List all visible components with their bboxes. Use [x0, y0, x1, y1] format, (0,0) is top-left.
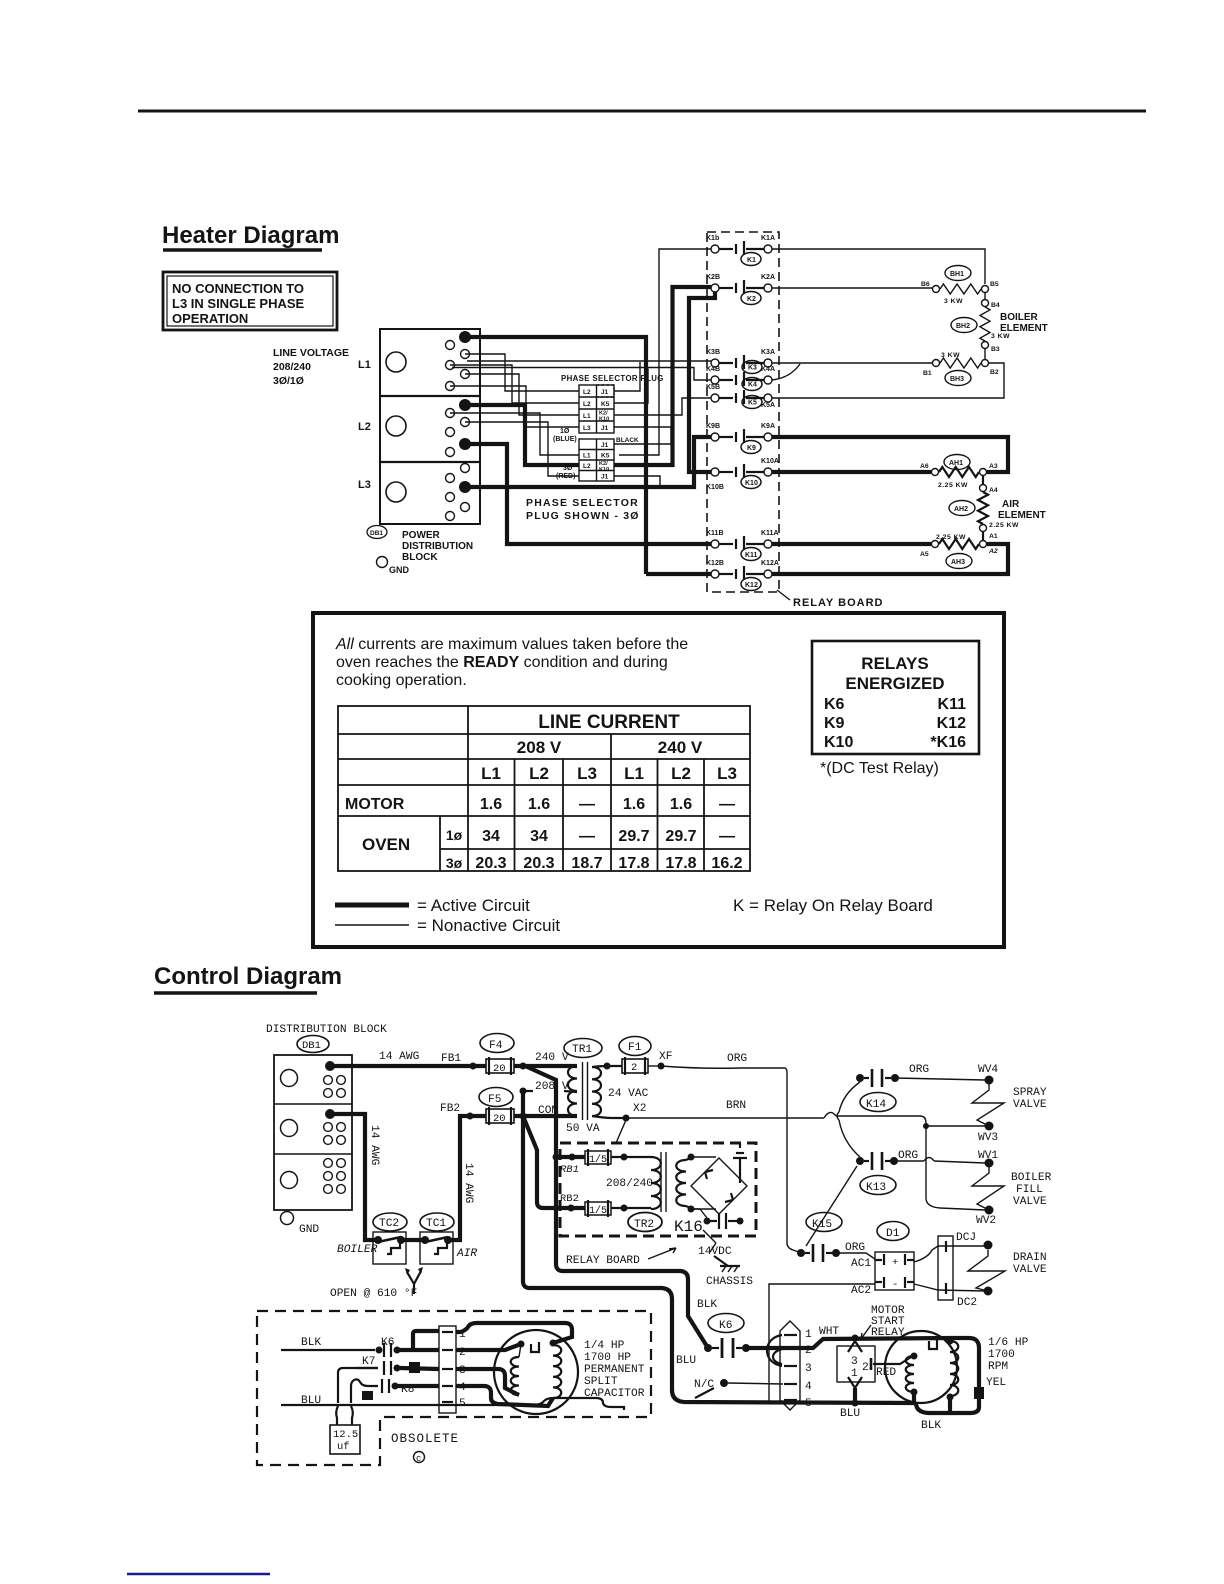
fuse RB1 1/5A — [556, 1149, 651, 1166]
relay K6 contact — [704, 1314, 750, 1359]
label AH3 — [946, 554, 972, 569]
wire K8 to pin4 — [395, 1384, 439, 1388]
svg-text:OBSOLETE: OBSOLETE — [391, 1432, 459, 1446]
svg-text:K1: K1 — [747, 257, 756, 264]
svg-text:K11: K11 — [938, 696, 967, 713]
relay K16 contact — [691, 1209, 744, 1229]
svg-text:FB2: FB2 — [440, 1103, 460, 1115]
svg-text:—: — — [579, 796, 595, 813]
relay K3 contact — [706, 349, 775, 374]
svg-text:BH1: BH1 — [950, 271, 964, 278]
svg-text:J1: J1 — [601, 425, 609, 432]
svg-text:OPEN @ 610 °F: OPEN @ 610 °F — [330, 1288, 417, 1300]
svg-text:K11B: K11B — [706, 530, 724, 537]
svg-text:K12: K12 — [745, 582, 758, 589]
label BH3 — [945, 371, 971, 386]
label PHASE SELECTOR PLUG SHOWN - 3ph — [526, 497, 640, 522]
wire RED relay pin2 to motor — [873, 1357, 911, 1364]
svg-text:L1: L1 — [624, 764, 644, 783]
svg-text:K3B: K3B — [706, 349, 720, 356]
relay K10 contact — [706, 458, 779, 491]
svg-text:208 V: 208 V — [517, 738, 562, 757]
svg-text:OVEN: OVEN — [362, 835, 410, 854]
svg-text:SPLIT: SPLIT — [584, 1376, 618, 1388]
wire secondary to X2 — [592, 1116, 626, 1118]
svg-text:K5: K5 — [601, 401, 610, 408]
svg-text:oven reaches the READY conditi: oven reaches the READY condition and dur… — [336, 654, 668, 671]
node FB1 dot — [470, 1063, 477, 1070]
svg-text:L3: L3 — [583, 425, 591, 432]
label SPRAY VALVE — [1013, 1087, 1047, 1111]
svg-text:A6: A6 — [920, 463, 929, 470]
svg-text:A5: A5 — [920, 551, 929, 558]
svg-text:K14: K14 — [866, 1099, 886, 1111]
relay K6 contact obsolete — [376, 1337, 401, 1357]
motor 1/4 HP circle — [494, 1330, 578, 1414]
wire secondary to F1 — [592, 1066, 622, 1067]
terminal square BLU riser — [362, 1391, 373, 1400]
label 1/4 HP specs — [584, 1340, 645, 1400]
svg-text:K6: K6 — [719, 1320, 732, 1332]
svg-text:cooking operation.: cooking operation. — [336, 672, 467, 689]
svg-text:K12: K12 — [937, 715, 966, 732]
motor start switch hook — [929, 1339, 937, 1349]
relays energized box — [812, 641, 979, 754]
label 14VDC with chassis — [698, 1230, 732, 1258]
node A1 — [980, 525, 998, 541]
fuse F4 20A — [480, 1034, 514, 1076]
resistor AH3 2.25KW — [932, 534, 987, 549]
svg-text:+: + — [892, 1257, 898, 1269]
wire long thin pair A — [467, 360, 711, 362]
wire K14 to WV4 — [895, 1078, 985, 1080]
label TR2 oval — [628, 1213, 662, 1232]
svg-text:1/5: 1/5 — [589, 1205, 607, 1217]
svg-text:WV1: WV1 — [978, 1150, 998, 1162]
wire XF ORG vertical — [661, 1066, 801, 1253]
wire plug2 row1 out — [614, 443, 671, 445]
thermostat TC1 — [420, 1213, 454, 1264]
phase selector plug table (3-phase, red/black) — [579, 439, 614, 481]
page bottom blue rule — [127, 1573, 270, 1575]
svg-text:VALVE: VALVE — [1013, 1099, 1047, 1111]
wire K3B thin — [614, 362, 640, 391]
svg-text:BOILER: BOILER — [1011, 1172, 1052, 1184]
svg-text:L2: L2 — [583, 463, 591, 470]
svg-text:208/240: 208/240 — [273, 361, 311, 373]
node L2 second terminal dot — [459, 438, 471, 450]
connector plug right motor — [780, 1321, 812, 1410]
wire L3 heavy trunk — [466, 437, 711, 487]
svg-text:K11A: K11A — [761, 530, 779, 537]
svg-text:L3: L3 — [577, 764, 597, 783]
svg-text:K4B: K4B — [706, 366, 720, 373]
label BH2 — [951, 318, 977, 333]
relay K1 contact — [706, 235, 775, 266]
svg-text:K16: K16 — [674, 1218, 703, 1236]
svg-text:BLACK: BLACK — [616, 437, 639, 444]
svg-text:3 KW: 3 KW — [944, 298, 963, 305]
node 240V dot — [520, 1063, 527, 1070]
svg-text:K10A: K10A — [761, 458, 779, 465]
svg-text:ENERGIZED: ENERGIZED — [845, 674, 944, 693]
svg-text:ORG: ORG — [909, 1064, 929, 1076]
wire plug2 row4 out — [614, 476, 660, 487]
svg-text:K1A: K1A — [761, 235, 775, 242]
transformer TR1 secondary coil — [592, 1067, 601, 1116]
wire K4A arc join — [772, 364, 800, 380]
BRN crossover bump — [824, 1112, 836, 1118]
label BOILER FILL VALVE — [1011, 1172, 1052, 1208]
wire motor loop right YEL — [916, 1338, 979, 1413]
boiler fill valve coil — [972, 1167, 1004, 1210]
svg-text:1ø: 1ø — [446, 827, 463, 843]
obsolete dashed box — [257, 1311, 651, 1465]
fuse F5 20A — [479, 1088, 514, 1126]
label line voltage — [273, 347, 349, 387]
label 1/6 HP 1700 RPM — [988, 1337, 1029, 1373]
svg-text:F4: F4 — [489, 1040, 503, 1052]
label RELAY BOARD control — [566, 1248, 676, 1267]
svg-text:2: 2 — [631, 1062, 637, 1074]
svg-text:K6: K6 — [824, 696, 845, 713]
svg-text:F1: F1 — [628, 1042, 642, 1054]
node A4 — [980, 485, 998, 495]
svg-text:—: — — [719, 796, 735, 813]
node DC1 — [984, 1241, 993, 1250]
svg-text:AIR: AIR — [1002, 499, 1020, 510]
wire BLK into K6 left — [281, 1349, 375, 1351]
wire K5B thin — [614, 398, 711, 415]
svg-text:RPM: RPM — [988, 1361, 1008, 1373]
svg-text:ORG: ORG — [845, 1242, 865, 1254]
svg-text:K5: K5 — [601, 453, 610, 460]
svg-text:AC2: AC2 — [851, 1285, 871, 1297]
svg-text:29.7: 29.7 — [665, 828, 696, 845]
svg-text:ORG: ORG — [898, 1150, 918, 1162]
wire K11A heavy to A5 — [772, 542, 931, 546]
wire A1 to A2 — [982, 532, 984, 540]
relay K14 contact — [856, 1069, 899, 1112]
page top rule — [138, 110, 1146, 113]
svg-text:uf: uf — [337, 1441, 350, 1453]
N/C blade — [695, 1388, 714, 1398]
label OPEN at 610 F with pointer — [330, 1267, 423, 1300]
svg-text:2: 2 — [862, 1362, 869, 1374]
svg-text:34: 34 — [530, 828, 548, 845]
svg-text:BLK: BLK — [921, 1420, 941, 1432]
svg-text:20.3: 20.3 — [523, 855, 554, 872]
bridge rectifier diamond — [691, 1157, 747, 1214]
wire BLU long riser — [523, 1091, 914, 1403]
svg-text:1/5: 1/5 — [589, 1154, 607, 1166]
wire block to plug row1 — [465, 354, 579, 391]
node X2 — [623, 1103, 647, 1122]
svg-text:X2: X2 — [633, 1103, 646, 1115]
svg-text:(BLUE): (BLUE) — [553, 436, 577, 443]
label TR1 oval — [564, 1039, 602, 1058]
resistor AH1 2.25KW — [932, 467, 987, 489]
svg-text:= Active Circuit: = Active Circuit — [417, 896, 530, 915]
svg-text:K11: K11 — [745, 552, 758, 559]
svg-text:K9B: K9B — [706, 423, 720, 430]
svg-text:*(DC Test Relay): *(DC Test Relay) — [820, 760, 939, 777]
node DC2 — [957, 1287, 993, 1310]
relay K9 contact — [706, 423, 775, 454]
svg-text:L3: L3 — [358, 479, 371, 491]
svg-text:K3A: K3A — [761, 349, 775, 356]
svg-text:BH2: BH2 — [956, 323, 970, 330]
svg-text:L2: L2 — [583, 389, 591, 396]
svg-text:34: 34 — [482, 828, 500, 845]
wire K7 left to BLU riser — [338, 1368, 378, 1403]
left motor start hook — [531, 1342, 539, 1352]
wire block to plug2 row4 — [465, 422, 579, 476]
label 3-phase (RED) — [556, 465, 575, 480]
label DB1 — [367, 526, 387, 539]
svg-text:DISTRIBUTION: DISTRIBUTION — [402, 541, 473, 552]
svg-text:TR2: TR2 — [634, 1219, 654, 1231]
wire F4 to TR1 240V tap — [514, 1064, 577, 1068]
svg-text:YEL: YEL — [986, 1377, 1006, 1389]
svg-text:K12A: K12A — [761, 560, 779, 567]
svg-text:DC2: DC2 — [957, 1297, 977, 1309]
svg-text:ELEMENT: ELEMENT — [1000, 323, 1048, 334]
svg-text:K5: K5 — [748, 400, 757, 407]
svg-text:K12B: K12B — [706, 560, 724, 567]
label AH2 — [949, 501, 975, 516]
svg-text:208 V: 208 V — [535, 1081, 569, 1093]
svg-text:Control Diagram: Control Diagram — [154, 963, 342, 990]
svg-text:14 AWG: 14 AWG — [368, 1125, 380, 1166]
svg-text:BLK: BLK — [697, 1299, 717, 1311]
fuse F1 2A — [619, 1037, 651, 1076]
svg-text:K3: K3 — [748, 365, 757, 372]
svg-text:K7: K7 — [362, 1356, 375, 1368]
node FB2 dot — [467, 1113, 474, 1120]
relay board dashed box control — [560, 1143, 756, 1236]
wire TC2-TC1 link — [401, 1238, 425, 1242]
fuse RB2 1/5A — [568, 1200, 652, 1217]
label BOILER ELEMENT — [1000, 312, 1048, 334]
drain valve coil — [968, 1250, 1005, 1291]
wire K7 square to pin3 — [400, 1368, 439, 1369]
svg-text:K2B: K2B — [706, 274, 720, 281]
power distribution block DB1 — [380, 329, 480, 524]
svg-text:PHASE SELECTOR: PHASE SELECTOR — [526, 497, 639, 509]
relay K2 contact — [706, 274, 775, 305]
svg-text:20: 20 — [493, 1063, 506, 1075]
svg-text:1/6 HP: 1/6 HP — [988, 1337, 1029, 1349]
wire L2b heavy to K11B — [466, 444, 711, 544]
wire 208V tap stub — [523, 1091, 577, 1092]
chassis ground symbol — [706, 1256, 753, 1288]
line current table — [338, 706, 750, 871]
node XF — [648, 1051, 672, 1070]
wire WHT branch to relay pin3 — [853, 1338, 857, 1341]
wire X2 into relay board — [616, 1120, 626, 1143]
node B3 — [982, 342, 1000, 354]
svg-text:AH3: AH3 — [951, 559, 965, 566]
svg-text:BOILER: BOILER — [337, 1244, 378, 1256]
svg-text:SPRAY: SPRAY — [1013, 1087, 1047, 1099]
svg-text:BLOCK: BLOCK — [402, 552, 438, 563]
svg-text:L1: L1 — [583, 413, 591, 420]
svg-text:J1: J1 — [601, 474, 609, 481]
phase selector plug table (1-phase, blue) — [561, 374, 664, 433]
svg-text:K5B: K5B — [706, 384, 720, 391]
svg-text:WHT: WHT — [819, 1326, 839, 1338]
wire K1A to B5 — [772, 249, 985, 284]
svg-text:B3: B3 — [991, 346, 1000, 353]
wire TC1 to F5 — [448, 1116, 486, 1240]
svg-text:14 AWG: 14 AWG — [379, 1051, 420, 1063]
svg-text:FB1: FB1 — [441, 1053, 461, 1065]
wire relay pin1 to BLU rail — [853, 1388, 857, 1403]
svg-text:PLUG SHOWN - 3Ø: PLUG SHOWN - 3Ø — [526, 510, 640, 522]
wire K12A heavy to A2 loop — [772, 544, 1008, 574]
svg-text:LINE VOLTAGE: LINE VOLTAGE — [273, 347, 349, 359]
svg-text:A1: A1 — [989, 533, 998, 540]
svg-text:5: 5 — [459, 1398, 466, 1410]
svg-text:XF: XF — [659, 1051, 672, 1063]
wire L1 heavy trunk — [466, 337, 646, 574]
relay K8 contact — [382, 1379, 414, 1396]
svg-text:3: 3 — [805, 1363, 812, 1375]
wire F5 to COM tap — [514, 1114, 577, 1118]
wire motor left bottom to rail — [912, 1392, 916, 1403]
svg-text:A2: A2 — [988, 548, 998, 555]
wire D1- to DC2 — [914, 1284, 985, 1291]
wire K5A to B2 loop — [772, 363, 1004, 398]
wire BLU rail obsolete — [281, 1398, 624, 1410]
svg-text:K5A: K5A — [761, 402, 775, 409]
svg-text:3 KW: 3 KW — [941, 352, 960, 359]
svg-text:—: — — [579, 828, 595, 845]
svg-text:D1: D1 — [886, 1228, 900, 1240]
svg-text:50 VA: 50 VA — [566, 1123, 600, 1135]
wire L2 to TC2 — [330, 1114, 378, 1240]
label N/C with node — [694, 1379, 783, 1391]
svg-text:RELAYS: RELAYS — [861, 654, 928, 673]
svg-text:K2A: K2A — [761, 274, 775, 281]
svg-text:24 VAC: 24 VAC — [608, 1088, 649, 1100]
svg-text:ELEMENT: ELEMENT — [998, 510, 1046, 521]
wire K4B thin — [614, 369, 648, 404]
wire B5 to B4 — [984, 293, 986, 300]
label BH1 — [945, 266, 971, 281]
svg-text:2.25 KW: 2.25 KW — [938, 482, 968, 489]
header L1 L2 L3 row — [481, 764, 737, 783]
svg-text:L2: L2 — [583, 401, 591, 408]
feed crossover bump on BRN — [837, 1112, 839, 1120]
svg-text:20.3: 20.3 — [475, 855, 506, 872]
label 1-phase (BLUE) — [553, 428, 577, 443]
resistor BH3 3KW — [933, 352, 989, 368]
svg-text:1: 1 — [851, 1368, 858, 1380]
ground terminal GND — [377, 557, 410, 576]
svg-text:BOILER: BOILER — [1000, 312, 1039, 323]
node L1 terminal dot — [459, 331, 471, 343]
wire BRN X2 to WV2 — [626, 1116, 985, 1210]
resistor BH1 3KW — [933, 284, 989, 305]
wire L2a heavy to plug — [466, 405, 579, 465]
title Control Diagram — [154, 963, 342, 993]
svg-text:RELAY BOARD: RELAY BOARD — [566, 1255, 640, 1267]
svg-text:RELAY BOARD: RELAY BOARD — [793, 597, 883, 609]
label AH1 — [944, 455, 970, 470]
svg-text:1.6: 1.6 — [623, 796, 645, 813]
svg-text:B6: B6 — [921, 281, 930, 288]
svg-text:POWER: POWER — [402, 530, 441, 541]
transformer TR2 primary — [651, 1157, 661, 1209]
wire K8 hook to riser — [351, 1379, 378, 1403]
copyright symbol — [414, 1452, 425, 1465]
relay board dashed outline — [707, 232, 779, 592]
transformer TR2 core — [660, 1152, 662, 1212]
wire B3 to B2 — [984, 349, 986, 359]
svg-text:L3 IN SINGLE PHASE: L3 IN SINGLE PHASE — [172, 296, 305, 311]
node L3 terminal dot — [459, 481, 471, 493]
svg-text:K4A: K4A — [761, 366, 775, 373]
wire AC2 to BLU riser — [769, 1284, 875, 1401]
label MOTOR START RELAY — [861, 1305, 905, 1339]
connector jumper arcs — [767, 1335, 782, 1366]
svg-text:TC1: TC1 — [426, 1218, 446, 1230]
svg-text:17.8: 17.8 — [665, 855, 696, 872]
wire plug out heavy to K2B — [614, 287, 711, 465]
node WV1 — [978, 1150, 998, 1168]
wire pin2 to left coil top — [456, 1344, 521, 1350]
svg-text:2.25 KW: 2.25 KW — [936, 534, 966, 541]
motor left winding — [906, 1356, 914, 1392]
capacitor 12.5 uf — [330, 1406, 360, 1454]
svg-text:4: 4 — [805, 1381, 812, 1393]
svg-text:BH3: BH3 — [950, 376, 964, 383]
label DB1 oval — [297, 1036, 329, 1053]
svg-text:K10: K10 — [824, 734, 853, 751]
legend active circuit — [335, 896, 530, 915]
node B4 — [982, 300, 1000, 310]
wire K15 to AC1 — [836, 1253, 875, 1259]
svg-text:*K16: *K16 — [930, 734, 966, 751]
transformer TR1 core — [582, 1062, 584, 1120]
svg-text:DRAIN: DRAIN — [1013, 1252, 1047, 1264]
svg-text:CHASSIS: CHASSIS — [706, 1276, 753, 1288]
svg-text:L1: L1 — [583, 453, 591, 460]
svg-text:DB1: DB1 — [302, 1040, 321, 1052]
svg-text:TR1: TR1 — [572, 1044, 592, 1056]
svg-text:K10: K10 — [745, 480, 758, 487]
wire motor right bottom down — [948, 1397, 952, 1413]
wire K12B heavy — [646, 572, 711, 576]
row OVEN 3ph — [446, 855, 743, 872]
ground GND control — [281, 1212, 320, 1237]
distribution block — [274, 1055, 352, 1210]
row OVEN 1ph — [362, 827, 735, 854]
svg-text:J1: J1 — [601, 389, 609, 396]
note box NO CONNECTION — [163, 272, 337, 330]
thermostat TC2 — [373, 1213, 407, 1264]
svg-text:L3: L3 — [717, 764, 737, 783]
relay K5 contact — [706, 384, 772, 409]
wire K13-K15 diagonal — [806, 1166, 857, 1246]
svg-text:2.25 KW: 2.25 KW — [989, 522, 1019, 529]
svg-text:MOTOR: MOTOR — [345, 796, 405, 813]
resistor AH2 2.25KW vertical — [978, 492, 1019, 529]
wire L1 to F4 — [330, 1064, 486, 1068]
svg-text:AIR: AIR — [456, 1248, 477, 1260]
